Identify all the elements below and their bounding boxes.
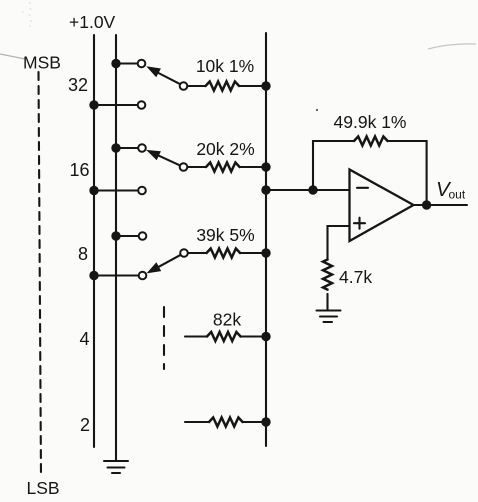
switch S8 arm pole circle	[180, 249, 188, 257]
wire feedback right leg	[388, 141, 427, 205]
junction bit-8 lower contact on bus1	[89, 271, 98, 280]
wire S32 pivot to contact	[116, 62, 138, 64]
wire non-inverting input to R5	[328, 226, 350, 260]
svg-text:49.9k 1%: 49.9k 1%	[334, 112, 407, 132]
resistor R8 39k 5%	[188, 249, 266, 258]
switch S32 contact circle	[138, 60, 146, 68]
wire ellipsis dashed continuation	[163, 307, 165, 369]
switch S16 lower contact circle	[138, 187, 146, 195]
junction feedback tap	[308, 185, 317, 194]
switch S8 arm with arrow	[147, 255, 181, 274]
switch S16 contact circle	[138, 144, 146, 152]
junction switch S8 upper contact on bus2	[111, 231, 120, 240]
resistor R5 4.7k (vertical)	[323, 260, 332, 290]
node Vout label	[436, 178, 466, 202]
wire +1.0V rail (bus1)	[93, 35, 95, 447]
ground (below R5)	[317, 311, 341, 323]
svg-text:4.7k: 4.7k	[339, 267, 372, 287]
ground (bottom of bus2)	[104, 461, 128, 473]
wire R5 to ground	[326, 294, 328, 310]
switch S16 arm pole circle	[180, 163, 188, 171]
switch S32 arm with arrow	[146, 66, 180, 84]
junction R4 to summing bus	[261, 332, 270, 341]
switch S8 lower contact circle	[139, 272, 147, 280]
junction output node	[422, 200, 431, 209]
junction bit-32 lower contact on bus1	[89, 100, 98, 109]
junction switch S16 pivot on bus2	[111, 143, 120, 152]
wire bit-8 lower contact	[94, 274, 139, 276]
resistor R4 82k	[185, 332, 266, 341]
op-amp U1	[350, 170, 414, 242]
switch S32 arm pole circle	[180, 82, 188, 90]
svg-text:32: 32	[68, 75, 88, 95]
svg-text:LSB: LSB	[27, 478, 60, 498]
op-amp inverting input mark	[357, 187, 368, 189]
wire output	[414, 204, 468, 206]
svg-text:2: 2	[80, 415, 90, 435]
svg-text:out: out	[449, 188, 466, 202]
junction bit-16 lower contact on bus1	[89, 186, 98, 195]
junction R16 to summing bus	[261, 162, 270, 171]
wire bit-16 lower contact	[94, 189, 138, 191]
resistor R32 10k 1%	[188, 82, 267, 91]
wire S8 upper contact	[116, 235, 139, 237]
svg-text:82k: 82k	[213, 310, 241, 330]
svg-text:8: 8	[78, 244, 88, 264]
wire summing bus to inverting input	[266, 189, 350, 191]
wire summing bus (bus3)	[265, 33, 267, 446]
junction R2 to summing bus	[261, 417, 270, 426]
junction switch S32 pivot on bus2	[111, 59, 120, 68]
resistor RF 49.9k 1%	[354, 137, 388, 146]
switch S8 upper contact circle	[139, 232, 147, 240]
svg-text:MSB: MSB	[23, 53, 61, 73]
wire feedback left leg	[313, 141, 354, 190]
svg-text:39k 5%: 39k 5%	[196, 225, 254, 245]
switch S32 lower contact circle	[138, 101, 146, 109]
junction summing bus to op-amp	[261, 185, 270, 194]
wire ground rail (bus2)	[115, 35, 117, 460]
wire bit-32 lower contact	[94, 104, 138, 106]
svg-text:20k 2%: 20k 2%	[196, 139, 254, 159]
svg-text:10k 1%: 10k 1%	[196, 56, 254, 76]
switch S16 arm with arrow	[146, 150, 180, 166]
op-amp non-inverting input mark	[354, 218, 365, 229]
svg-text:4: 4	[79, 329, 89, 349]
svg-text:+1.0V: +1.0V	[69, 12, 116, 32]
resistor R16 20k 2%	[188, 163, 267, 172]
resistor R2	[185, 418, 267, 427]
junction R8 to summing bus	[261, 248, 270, 257]
junction R32 to summing bus	[261, 81, 270, 90]
svg-text:16: 16	[69, 160, 89, 180]
wire S16 pivot to contact	[116, 147, 138, 149]
wire MSB-LSB dashed bit line	[39, 72, 42, 476]
